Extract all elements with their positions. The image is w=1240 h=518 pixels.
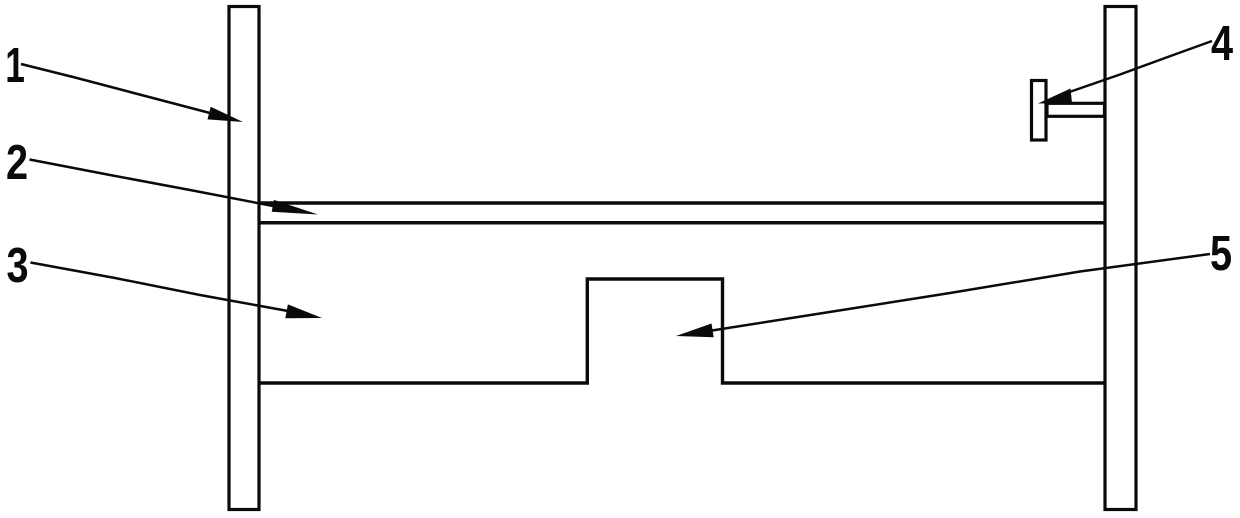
svg-text:3: 3 — [7, 239, 29, 293]
left upright column (part 1) — [229, 7, 259, 510]
top plate line (part 2) — [259, 201, 1105, 205]
bottom plate line — [259, 221, 1105, 225]
label 4 — [1211, 17, 1233, 71]
label 3 — [7, 239, 29, 293]
leader line 1 — [21, 64, 210, 113]
svg-text:5: 5 — [1210, 227, 1232, 281]
leader line 3 — [31, 263, 289, 312]
label 2 — [6, 136, 28, 190]
lower body stepped profile (part 3 / notch 5) — [259, 279, 1105, 383]
label 5 — [1210, 227, 1232, 281]
svg-text:2: 2 — [6, 136, 28, 190]
arrowhead 4 — [1038, 89, 1072, 104]
label 1 — [5, 38, 25, 93]
leader line 5 — [712, 254, 1210, 331]
arrowhead 2 — [272, 200, 318, 215]
leader line 2 — [30, 160, 274, 207]
arrowhead 1 — [208, 107, 244, 122]
leader line 4 — [1068, 41, 1212, 93]
T-bracket stem — [1047, 103, 1105, 116]
svg-text:1: 1 — [5, 38, 25, 93]
arrowhead 5 — [676, 324, 714, 338]
arrowhead 3 — [285, 304, 322, 318]
right upright column — [1105, 7, 1136, 510]
svg-text:4: 4 — [1211, 17, 1233, 71]
T-bracket vertical bar (part 4) — [1032, 81, 1047, 141]
